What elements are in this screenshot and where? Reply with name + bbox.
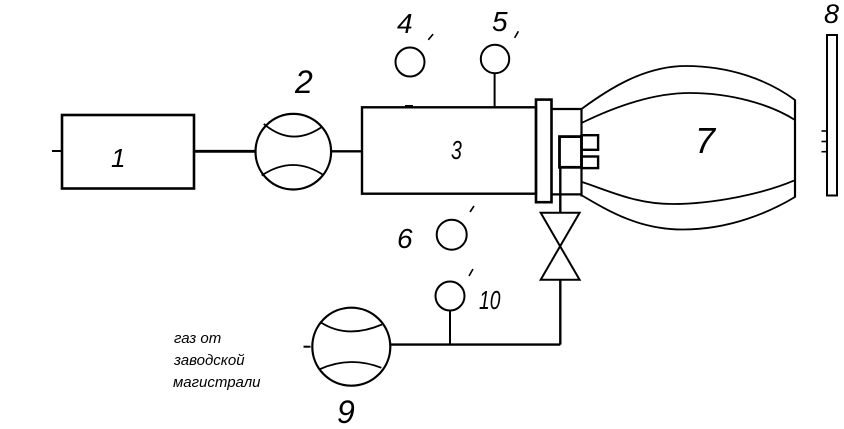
svg-text:7: 7 — [695, 120, 717, 161]
svg-text:2: 2 — [294, 64, 313, 100]
svg-text:8: 8 — [824, 0, 839, 29]
svg-text:заводской: заводской — [173, 352, 245, 369]
svg-text:3: 3 — [451, 135, 462, 164]
svg-text:6: 6 — [397, 223, 413, 254]
svg-text:газ от: газ от — [174, 330, 221, 347]
svg-text:10: 10 — [479, 285, 501, 315]
svg-text:4: 4 — [397, 8, 413, 39]
svg-text:магистрали: магистрали — [173, 374, 261, 391]
svg-text:1: 1 — [111, 143, 125, 173]
svg-text:9: 9 — [337, 394, 355, 429]
svg-text:5: 5 — [492, 6, 508, 37]
